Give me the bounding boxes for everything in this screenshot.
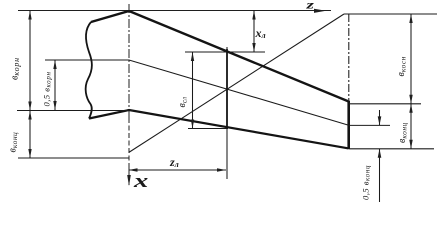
z axis arrowhead	[314, 9, 326, 13]
spar top edge left of root	[91, 11, 129, 22]
dimension b_sl (section height)	[192, 52, 194, 129]
dimension x_l	[253, 11, 255, 53]
dimension b_konc (right)	[410, 104, 412, 149]
dimension b_korn (left)	[29, 11, 31, 111]
svg-text:всл: всл	[177, 97, 189, 108]
extension line section top	[185, 51, 265, 53]
svg-text:вконц: вконц	[397, 122, 409, 143]
svg-text:xл: xл	[255, 26, 266, 40]
extension line tip top	[349, 103, 421, 105]
svg-text:0,5 вкорн: 0,5 вкорн	[42, 71, 53, 106]
spar top edge	[129, 11, 349, 102]
extension line section bottom	[188, 128, 228, 130]
spar bottom edge	[129, 110, 349, 148]
extension line lower left	[18, 157, 129, 159]
dimension z_l	[129, 169, 227, 171]
dimension 0,5 b_korn	[54, 60, 56, 110]
section line at z_l	[226, 49, 228, 129]
dimension 0,5 b_konc	[379, 110, 381, 202]
x axis	[128, 4, 130, 185]
tip station centerline	[348, 14, 350, 100]
spar bottom edge left of root	[89, 110, 129, 119]
mid line of spar	[45, 60, 349, 125]
svg-text:0,5 вконц: 0,5 вконц	[361, 165, 372, 200]
dimension b_korn (right tall)	[410, 14, 412, 104]
svg-text:z: z	[305, 0, 315, 11]
svg-text:вкосн: вкосн	[396, 56, 408, 76]
dimension b_konc (left lower)	[29, 111, 31, 159]
svg-text:x: x	[133, 171, 148, 192]
svg-text:zл: zл	[169, 155, 179, 169]
svg-text:вкорн: вкорн	[10, 57, 22, 80]
svg-text:вконц: вконц	[8, 132, 20, 153]
z axis	[18, 10, 331, 12]
top extension line at tip station	[344, 13, 437, 15]
x axis arrowhead	[127, 175, 131, 186]
mid line extension at tip	[349, 124, 390, 126]
construction diagonal	[129, 14, 344, 153]
extension line root bottom	[17, 110, 133, 112]
spar tip end face	[347, 101, 350, 150]
extension line tip bottom	[349, 148, 434, 150]
break (wavy) line at root	[86, 22, 92, 119]
